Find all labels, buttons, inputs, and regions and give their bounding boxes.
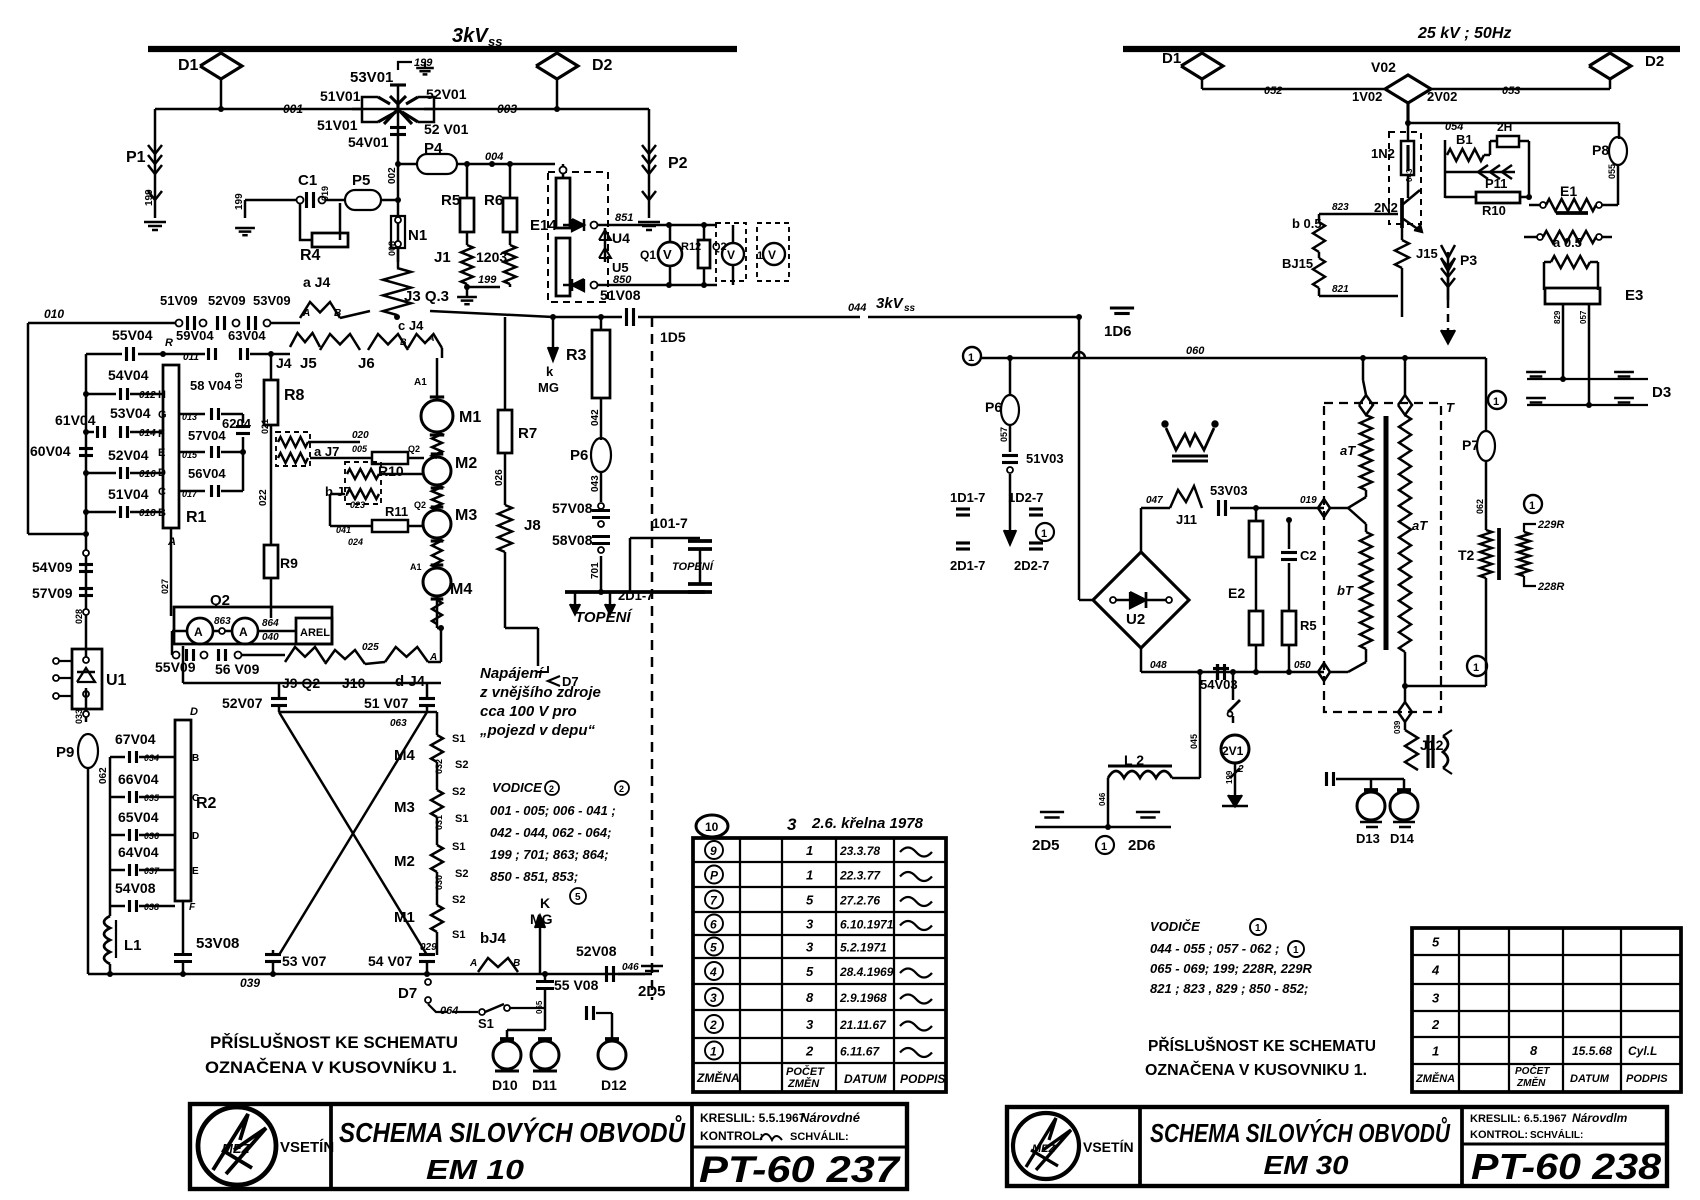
- svg-text:R: R: [165, 337, 173, 349]
- svg-text:003: 003: [497, 102, 517, 116]
- svg-text:1: 1: [1255, 923, 1261, 934]
- svg-text:S2: S2: [455, 868, 468, 880]
- svg-text:001 - 005; 006 - 041 ;: 001 - 005; 006 - 041 ;: [490, 803, 616, 818]
- svg-text:KONTROL:: KONTROL:: [700, 1129, 763, 1143]
- brush P11: [1445, 171, 1515, 174]
- svg-text:023: 023: [350, 500, 365, 510]
- svg-text:Nárovdlm: Nárovdlm: [1572, 1111, 1628, 1125]
- motor M3-M4 link: [432, 538, 442, 568]
- wire 069: [279, 711, 427, 714]
- svg-text:D2: D2: [592, 57, 613, 74]
- transformer winding bT: [1360, 532, 1372, 649]
- svg-text:065: 065: [535, 1000, 544, 1014]
- svg-text:PODPIS: PODPIS: [900, 1072, 945, 1086]
- cross-connection box: [182, 646, 185, 683]
- cap 52V08 and ground 2D5: [605, 966, 608, 982]
- svg-text:S1: S1: [478, 1016, 494, 1031]
- motor field chain M4: [440, 683, 442, 712]
- svg-text:P1: P1: [126, 149, 146, 166]
- svg-text:019: 019: [320, 186, 330, 201]
- svg-text:B1: B1: [1456, 132, 1473, 147]
- interlock P6 (right): [1009, 358, 1012, 395]
- svg-text:005: 005: [352, 444, 368, 454]
- svg-text:3: 3: [806, 917, 814, 932]
- ground 199 left of C1: [244, 200, 247, 218]
- svg-text:„pojezd v depu“: „pojezd v depu“: [479, 722, 596, 739]
- svg-text:ss: ss: [904, 303, 916, 314]
- svg-text:54V09: 54V09: [32, 559, 73, 575]
- svg-text:042: 042: [590, 409, 601, 426]
- wire to 51V08: [398, 295, 430, 311]
- svg-text:229R: 229R: [1537, 519, 1564, 531]
- svg-text:S1: S1: [452, 929, 465, 941]
- svg-text:MEZ: MEZ: [222, 1141, 251, 1156]
- svg-text:C: C: [158, 486, 166, 498]
- svg-text:67V04: 67V04: [115, 731, 156, 747]
- left bus vertical: [85, 354, 88, 612]
- svg-text:D7: D7: [562, 674, 579, 689]
- svg-text:61V04: 61V04: [55, 412, 96, 428]
- svg-text:P6: P6: [570, 447, 588, 464]
- svg-text:062: 062: [1475, 499, 1485, 514]
- svg-text:D13: D13: [1356, 831, 1380, 846]
- svg-text:2D2-7: 2D2-7: [1014, 558, 1049, 573]
- svg-text:R9: R9: [280, 555, 298, 571]
- svg-text:56V04: 56V04: [188, 466, 226, 481]
- svg-text:821: 821: [1332, 284, 1349, 295]
- svg-text:1D5: 1D5: [660, 329, 686, 345]
- svg-text:P3: P3: [1460, 252, 1477, 268]
- svg-text:53V04: 53V04: [110, 405, 151, 421]
- svg-text:d J4: d J4: [395, 673, 426, 690]
- svg-text:012: 012: [139, 390, 156, 401]
- main resistor R1 ladder: [163, 365, 179, 528]
- svg-text:R1: R1: [186, 509, 207, 526]
- svg-text:046: 046: [622, 962, 639, 973]
- svg-text:15.5.68: 15.5.68: [1572, 1044, 1612, 1058]
- svg-text:60V04: 60V04: [30, 443, 71, 459]
- svg-text:850 - 851, 853;: 850 - 851, 853;: [490, 869, 578, 884]
- resistor B1: [1444, 140, 1447, 198]
- rectifier bridge U2: [1093, 552, 1189, 648]
- svg-text:8: 8: [806, 990, 814, 1005]
- svg-text:PODPIS: PODPIS: [1626, 1073, 1668, 1085]
- svg-text:D7: D7: [398, 985, 417, 1002]
- cap 55V08: [536, 980, 554, 983]
- svg-text:3: 3: [806, 1017, 814, 1032]
- traction motor M4: [423, 568, 451, 596]
- transformer winding aT (upper left): [1359, 395, 1373, 415]
- svg-text:A: A: [427, 333, 435, 343]
- svg-text:N1: N1: [408, 227, 427, 244]
- svg-text:3: 3: [710, 991, 717, 1005]
- cap 52V04 row: [86, 472, 116, 475]
- svg-text:M3: M3: [394, 799, 415, 816]
- svg-text:Cyl.L: Cyl.L: [1628, 1044, 1657, 1058]
- svg-text:022: 022: [258, 489, 269, 506]
- svg-text:D: D: [190, 706, 198, 718]
- transformer T dashed box: [1324, 403, 1441, 712]
- svg-text:055: 055: [1607, 164, 1617, 179]
- svg-text:J4: J4: [276, 355, 292, 371]
- inductor L2: [1199, 672, 1202, 778]
- rectifier U1: [85, 612, 88, 649]
- svg-text:2V1: 2V1: [1222, 744, 1244, 758]
- heater capacitor 101-7: [630, 537, 700, 540]
- svg-text:55V04: 55V04: [112, 327, 153, 343]
- svg-text:029: 029: [420, 942, 437, 953]
- svg-text:b 0.5: b 0.5: [1292, 216, 1322, 231]
- svg-text:004: 004: [485, 151, 503, 163]
- voltmeter Q2 (dashed box): [716, 223, 746, 281]
- svg-text:58 V04: 58 V04: [190, 378, 232, 393]
- resistor 229R/228R: [1518, 532, 1530, 576]
- svg-text:199 ; 701; 863; 864;: 199 ; 701; 863; 864;: [490, 847, 609, 862]
- svg-text:c J4: c J4: [398, 318, 424, 333]
- svg-text:P11: P11: [1485, 176, 1507, 191]
- svg-text:S2: S2: [452, 786, 465, 798]
- svg-text:51V03: 51V03: [1026, 451, 1064, 466]
- svg-text:A: A: [469, 958, 477, 969]
- svg-text:1D6: 1D6: [1104, 323, 1132, 340]
- svg-text:B: B: [400, 337, 407, 347]
- svg-text:032: 032: [434, 759, 444, 774]
- svg-text:S2: S2: [452, 894, 465, 906]
- svg-text:ss: ss: [488, 34, 502, 49]
- svg-text:019: 019: [1300, 495, 1317, 506]
- svg-text:823: 823: [1332, 202, 1349, 213]
- cap 57V04: [179, 451, 205, 454]
- svg-text:R5: R5: [441, 192, 460, 209]
- svg-text:3: 3: [806, 940, 814, 955]
- svg-text:10: 10: [705, 820, 719, 834]
- crossing X wires: [279, 712, 427, 955]
- svg-text:K: K: [540, 895, 550, 911]
- svg-text:A: A: [194, 625, 203, 639]
- svg-text:DATUM: DATUM: [1570, 1073, 1610, 1085]
- svg-text:51V01: 51V01: [317, 117, 358, 133]
- disconnector D2 (right): [1589, 53, 1631, 79]
- svg-text:1: 1: [1529, 500, 1535, 512]
- svg-text:2H: 2H: [1497, 120, 1512, 134]
- svg-text:56 V09: 56 V09: [215, 661, 260, 677]
- contacts 57V08 58V08: [598, 503, 604, 509]
- wire 199 below J1: [464, 284, 470, 290]
- cap 65V04 row: [110, 834, 125, 837]
- svg-text:KONTROL:: KONTROL:: [1470, 1129, 1528, 1141]
- svg-text:54V04: 54V04: [108, 367, 149, 383]
- svg-text:L1: L1: [124, 937, 142, 954]
- svg-text:M3: M3: [455, 507, 477, 524]
- svg-text:KRESLIL: 5.5.1967: KRESLIL: 5.5.1967: [700, 1111, 806, 1125]
- svg-text:M4: M4: [450, 581, 472, 598]
- svg-text:017: 017: [182, 489, 198, 499]
- svg-text:065 - 069; 199; 228R, 229R: 065 - 069; 199; 228R, 229R: [1150, 961, 1312, 976]
- vertical to bridge: [1078, 317, 1081, 600]
- wire 010 main horizontal: [28, 322, 175, 325]
- svg-text:k: k: [546, 364, 554, 379]
- svg-text:2D6: 2D6: [1128, 837, 1156, 854]
- bus 25kV 50Hz (right top): [1123, 46, 1680, 52]
- svg-text:E14: E14: [530, 217, 557, 234]
- revision table (right): [1412, 928, 1681, 1092]
- svg-text:57V09: 57V09: [32, 585, 73, 601]
- svg-text:J8: J8: [524, 517, 541, 534]
- interlock P6 (left): [591, 438, 611, 472]
- title block (left): [190, 1104, 907, 1189]
- svg-text:2D5: 2D5: [1032, 837, 1060, 854]
- revision table (left): [693, 838, 946, 1092]
- wire 060: [981, 357, 1486, 360]
- svg-text:199: 199: [1225, 770, 1234, 784]
- svg-text:R8: R8: [284, 387, 305, 404]
- svg-text:ZMĚNA: ZMĚNA: [696, 1070, 740, 1085]
- traction motor M2: [423, 457, 451, 485]
- contact 54V03: [1216, 664, 1219, 680]
- node 1 circle (left end of 060): [963, 347, 981, 365]
- inductor L1: [104, 916, 110, 964]
- svg-text:050: 050: [1294, 660, 1311, 671]
- svg-text:53V03: 53V03: [1210, 483, 1248, 498]
- svg-text:701: 701: [590, 562, 601, 579]
- heater bus TOPENI: [565, 590, 705, 594]
- wire 851: [598, 224, 717, 227]
- resistor R5 (right): [1282, 611, 1296, 645]
- svg-text:5.2.1971: 5.2.1971: [840, 941, 887, 955]
- svg-text:SCHVÁLIL:: SCHVÁLIL:: [1530, 1128, 1583, 1141]
- cap 67V04 row: [110, 756, 125, 759]
- disconnector D2: [536, 53, 578, 79]
- fuse 2H: [1497, 136, 1519, 147]
- choke J15: [1401, 228, 1404, 240]
- svg-text:E: E: [158, 447, 165, 459]
- svg-text:P: P: [710, 869, 719, 883]
- svg-text:Q2: Q2: [414, 500, 426, 510]
- svg-text:008: 008: [387, 241, 397, 256]
- svg-text:1: 1: [806, 868, 813, 883]
- svg-text:3kV: 3kV: [452, 25, 489, 47]
- svg-text:199: 199: [234, 193, 245, 210]
- pantograph P1: [154, 109, 157, 139]
- svg-text:B: B: [513, 958, 520, 969]
- svg-text:VODICE: VODICE: [492, 780, 542, 795]
- cap 64V04 row: [110, 869, 125, 872]
- svg-text:001: 001: [283, 102, 303, 116]
- svg-text:024: 024: [348, 537, 363, 547]
- svg-text:A: A: [302, 308, 310, 319]
- svg-text:ZMĚN: ZMĚN: [787, 1077, 820, 1090]
- contacts 55V09 56V09: [172, 630, 186, 633]
- svg-text:D1: D1: [1162, 50, 1181, 67]
- svg-text:VODIČE: VODIČE: [1150, 919, 1200, 934]
- svg-text:1: 1: [1293, 945, 1299, 956]
- svg-text:D: D: [192, 831, 199, 842]
- svg-text:019: 019: [234, 372, 245, 389]
- transformer J12: [1404, 722, 1407, 730]
- motor chain bottom: [436, 596, 439, 628]
- svg-text:J6: J6: [358, 355, 375, 372]
- svg-text:2: 2: [549, 784, 554, 794]
- svg-text:TOPENÍ: TOPENÍ: [575, 609, 633, 626]
- svg-text:039: 039: [240, 976, 260, 990]
- svg-text:J3 Q.3: J3 Q.3: [404, 288, 449, 305]
- motor field chain M2: [436, 817, 439, 845]
- svg-text:044 - 055 ; 057 - 062 ;: 044 - 055 ; 057 - 062 ;: [1150, 941, 1279, 956]
- resistor R3: [600, 317, 603, 330]
- svg-text:101-7: 101-7: [652, 515, 688, 531]
- svg-text:PT-60 238: PT-60 238: [1471, 1146, 1661, 1187]
- svg-text:039: 039: [1393, 720, 1402, 734]
- table handwriting top: [696, 815, 728, 837]
- svg-text:EM 10: EM 10: [426, 1154, 525, 1185]
- svg-text:060: 060: [1186, 345, 1205, 357]
- svg-text:VSETÍN: VSETÍN: [1083, 1139, 1134, 1155]
- winding symbol (crown): [1166, 428, 1214, 450]
- wire 054: [1406, 103, 1409, 123]
- svg-text:850: 850: [613, 274, 632, 286]
- svg-text:R7: R7: [518, 425, 537, 442]
- svg-text:53V08: 53V08: [196, 935, 239, 952]
- svg-text:011: 011: [183, 352, 199, 363]
- svg-text:030: 030: [434, 875, 444, 890]
- cap 60V04 on bus: [79, 447, 93, 450]
- svg-text:U5: U5: [612, 260, 629, 275]
- resistor R10 (right): [1476, 192, 1520, 203]
- resistor E3 box: [1545, 288, 1600, 304]
- title block (right): [1007, 1107, 1667, 1186]
- svg-text:028: 028: [74, 609, 84, 624]
- svg-text:044: 044: [848, 302, 866, 314]
- svg-text:T: T: [1446, 400, 1455, 415]
- switch S1: [479, 1009, 485, 1015]
- svg-text:SCHVÁLIL:: SCHVÁLIL:: [790, 1130, 849, 1143]
- current transformer T2: [1480, 530, 1492, 578]
- traction motor M3: [423, 510, 451, 538]
- voltmeter 1V (dashed box): [757, 223, 789, 281]
- svg-text:EM 30: EM 30: [1264, 1150, 1350, 1180]
- svg-text:S1: S1: [452, 841, 465, 853]
- svg-text:027: 027: [160, 579, 170, 594]
- svg-text:2: 2: [805, 1044, 814, 1059]
- svg-text:5: 5: [710, 941, 717, 955]
- brush arrow P3: [1447, 252, 1450, 300]
- svg-text:863: 863: [214, 616, 231, 627]
- cap 53V07 bottom: [265, 953, 281, 956]
- svg-text:P8: P8: [1592, 142, 1609, 158]
- wire 053: [1431, 88, 1610, 91]
- svg-text:27.2.76: 27.2.76: [839, 894, 880, 908]
- svg-text:P6: P6: [985, 399, 1002, 415]
- svg-text:1: 1: [1041, 528, 1047, 540]
- svg-text:VSETÍN: VSETÍN: [280, 1139, 334, 1156]
- resistor group bJ7 (dashed): [270, 443, 273, 545]
- svg-text:U1: U1: [106, 672, 127, 689]
- svg-text:52V04: 52V04: [108, 447, 149, 463]
- transformer core: [1384, 416, 1389, 650]
- table rows content: [705, 841, 723, 859]
- ground for P2: [638, 221, 660, 224]
- svg-text:042 - 044, 062 - 064;: 042 - 044, 062 - 064;: [490, 825, 611, 840]
- svg-text:21.11.67: 21.11.67: [839, 1018, 887, 1032]
- svg-text:1: 1: [1493, 396, 1499, 408]
- svg-text:Q1: Q1: [640, 248, 656, 262]
- svg-text:S1: S1: [452, 733, 465, 745]
- svg-text:bT: bT: [1337, 583, 1354, 598]
- svg-text:SCHEMA SILOVÝCH OBVODŮ: SCHEMA SILOVÝCH OBVODŮ: [339, 1115, 686, 1148]
- capacitor 51V08: [625, 308, 628, 326]
- svg-text:864: 864: [262, 618, 279, 629]
- motor M1-M2 link: [432, 432, 442, 458]
- svg-text:A1: A1: [410, 562, 422, 572]
- bus 039: [88, 973, 652, 976]
- svg-text:M1: M1: [394, 909, 415, 926]
- traction motor M1: [436, 358, 439, 400]
- svg-text:016: 016: [139, 469, 156, 480]
- diode U4: [563, 224, 570, 227]
- svg-text:D11: D11: [532, 1077, 557, 1093]
- transformer bottom connections: [1365, 649, 1368, 662]
- svg-text:B: B: [192, 753, 199, 764]
- svg-text:3kV: 3kV: [876, 295, 905, 312]
- switch group 51V01/52V01: [352, 108, 362, 111]
- svg-text:829: 829: [1553, 310, 1562, 324]
- svg-text:057: 057: [1579, 310, 1588, 324]
- svg-text:V: V: [727, 248, 735, 262]
- svg-text:52V08: 52V08: [576, 943, 617, 959]
- svg-text:E: E: [192, 866, 199, 877]
- isolation contacts 51V09 52V09 53V09: [176, 320, 183, 327]
- resistor R7: [504, 317, 507, 410]
- svg-text:D14: D14: [1390, 831, 1415, 846]
- svg-text:1: 1: [1473, 662, 1479, 674]
- svg-text:002: 002: [387, 167, 398, 184]
- svg-text:1D1-7: 1D1-7: [950, 490, 985, 505]
- svg-text:V02: V02: [1371, 59, 1396, 75]
- drawing info (left): [692, 1145, 907, 1148]
- fuse N1: [397, 200, 400, 262]
- svg-text:63V04: 63V04: [228, 328, 266, 343]
- svg-text:A: A: [239, 625, 248, 639]
- main resistor R2 ladder: [175, 720, 191, 901]
- svg-text:PŘÍSLUŠNOST KE SCHEMATU: PŘÍSLUŠNOST KE SCHEMATU: [1148, 1036, 1376, 1055]
- lamps D10 D11: [506, 1030, 509, 1042]
- motor field chain M1: [436, 872, 439, 905]
- svg-text:043: 043: [1405, 168, 1414, 182]
- resistor E1 tap row: [1537, 234, 1543, 240]
- svg-text:A1: A1: [414, 377, 427, 388]
- arrows TOPENI: [574, 592, 577, 608]
- cap 56V04: [179, 490, 205, 493]
- isolator contacts row 55V04 59V04 63V04: [27, 323, 30, 534]
- interlock P9: [85, 709, 88, 722]
- interlock P8: [1618, 123, 1621, 139]
- svg-text:1: 1: [1101, 841, 1107, 853]
- resistor R9: [270, 545, 272, 600]
- cap 54V07 bottom: [419, 953, 435, 956]
- svg-text:046: 046: [1098, 792, 1107, 806]
- svg-text:53V01: 53V01: [350, 69, 393, 86]
- svg-text:52V07: 52V07: [222, 695, 263, 711]
- pantograph P2: [648, 109, 651, 139]
- svg-text:052: 052: [1264, 85, 1282, 97]
- svg-text:a J4: a J4: [303, 274, 330, 290]
- svg-text:POČET: POČET: [786, 1065, 825, 1078]
- contacts J9 Q2 J10 dJ4: [285, 647, 325, 662]
- disconnector D1 (right): [1181, 53, 1223, 79]
- svg-text:1D2-7: 1D2-7: [1008, 490, 1043, 505]
- svg-text:Q2: Q2: [408, 444, 420, 454]
- svg-text:021: 021: [260, 419, 270, 434]
